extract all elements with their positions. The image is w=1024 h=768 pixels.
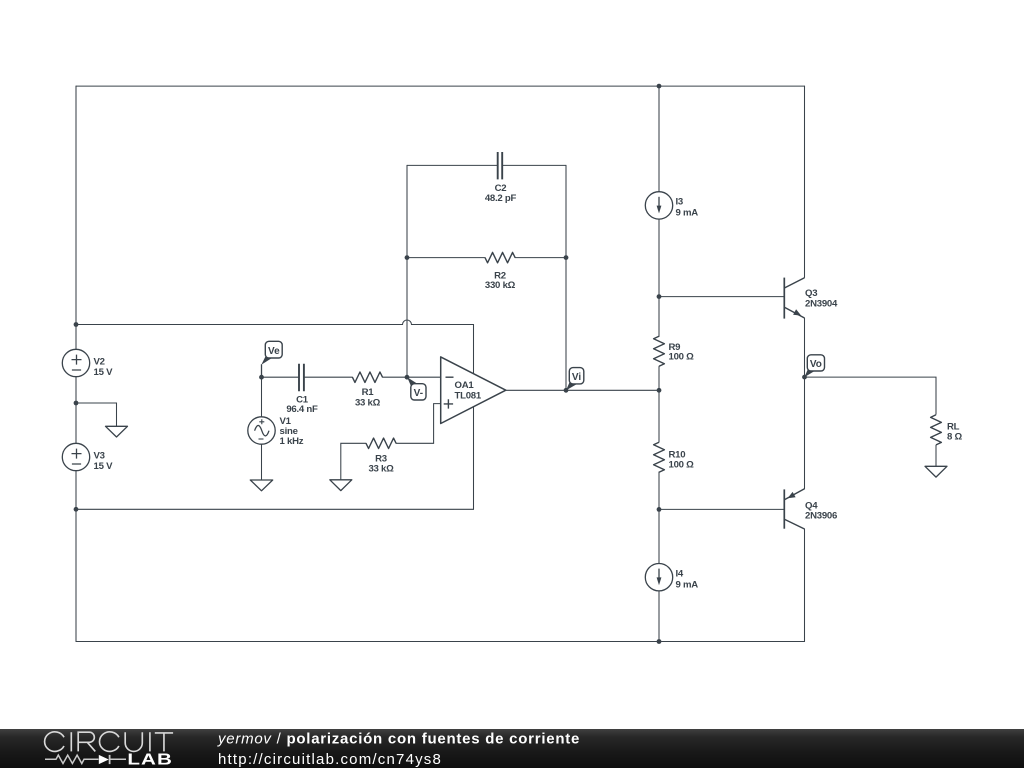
wire Q3 collector vertical (804, 86, 806, 277)
node flag V- (407, 377, 426, 400)
wire Q4 emitter vertical (804, 377, 806, 489)
svg-text:R1: R1 (362, 387, 375, 398)
svg-text:15 V: 15 V (94, 461, 114, 472)
svg-text:Vi: Vi (572, 372, 581, 383)
node dot (407,377.2) (405, 375, 410, 380)
node dot (659,641.5) (657, 639, 662, 644)
node dot (76,509.3) (74, 507, 79, 512)
node dot (659,296.6) (657, 294, 662, 299)
resistor R1 (352, 372, 382, 382)
svg-text:LAB: LAB (127, 750, 173, 768)
node flag Ve (261, 341, 282, 377)
wire left rail mid (75, 377, 77, 443)
transistor Q3 (784, 278, 804, 319)
svg-text:8 Ω: 8 Ω (947, 432, 963, 443)
svg-text:48.2 pF: 48.2 pF (485, 193, 517, 204)
CircuitLab logo: CIRCUIT outline letters (45, 732, 174, 752)
wire op-amp plus input path from R3 (396, 404, 441, 444)
wire RL to ground (935, 445, 937, 466)
wire inner rect bottom (76, 508, 474, 510)
wire R2 row (407, 257, 566, 259)
node dot (566,257.6) (564, 255, 569, 260)
svg-text:V-: V- (414, 388, 423, 399)
wire feedback left vertical (406, 165, 408, 377)
svg-text:I4: I4 (676, 569, 684, 580)
resistor RL (931, 415, 942, 445)
svg-text:15 V: 15 V (94, 367, 114, 378)
ground (below V1) (250, 480, 272, 491)
wire Q4 collector vertical (804, 529, 806, 642)
svg-text:33 kΩ: 33 kΩ (368, 464, 394, 475)
svg-text:330 kΩ: 330 kΩ (485, 280, 516, 291)
resistor R10 (654, 442, 665, 472)
wire left rail upper (75, 86, 77, 349)
wire top rail (76, 85, 805, 87)
svg-text:96.4 nF: 96.4 nF (286, 404, 318, 415)
wire center rail top (658, 86, 660, 192)
wire V1 top (261, 377, 263, 416)
node dot (261.5,377.2) (259, 375, 264, 380)
wire V2-V3 junction to ground (76, 403, 117, 426)
svg-text:http://circuitlab.com/cn74ys8: http://circuitlab.com/cn74ys8 (218, 751, 442, 768)
svg-text:Vo: Vo (810, 359, 822, 370)
resistor R2 (485, 252, 515, 262)
footer bar (0, 729, 1024, 768)
svg-text:100 Ω: 100 Ω (669, 352, 695, 363)
node dot (804.5,377.1) (802, 375, 807, 380)
wire R1 to op-amp minus input (383, 376, 441, 378)
svg-text:Ve: Ve (268, 346, 280, 357)
wire feedback right vertical (565, 165, 567, 390)
resistor R3 (366, 438, 396, 448)
wire inner rect top with hop (76, 320, 474, 325)
svg-text:OA1: OA1 (455, 380, 475, 391)
node dot (659,85.7) (657, 84, 662, 89)
op-amp OA1 (441, 357, 506, 424)
wire I4 to bottom rail (658, 591, 660, 641)
ground (below R3) (330, 480, 352, 491)
svg-text:100 Ω: 100 Ω (669, 460, 695, 471)
current source I3 (645, 192, 672, 219)
wire V1 bottom (261, 445, 263, 481)
wire C1 to R1 (304, 376, 353, 378)
node flag Vi (566, 368, 584, 391)
node dot (76,403) (74, 401, 79, 406)
svg-text:2N3906: 2N3906 (805, 511, 837, 522)
resistor R9 (654, 336, 665, 366)
node flag Vo (805, 355, 825, 377)
voltage source V2 (62, 349, 89, 376)
capacitor C1 (299, 364, 304, 392)
node dot (659,509.4) (657, 507, 662, 512)
svg-text:9 mA: 9 mA (676, 579, 699, 590)
node dot (76,322.7) (74, 322, 79, 327)
svg-text:TL081: TL081 (455, 390, 482, 401)
source V1 sine (248, 417, 275, 444)
wire node Ve to C1 (262, 376, 300, 378)
svg-text:9 mA: 9 mA (676, 207, 699, 218)
node dot (566,390.3) (564, 388, 569, 393)
svg-text:I3: I3 (676, 197, 684, 208)
wire bottom rail (76, 641, 805, 643)
wire op-amp output (506, 389, 659, 391)
wire I3 to Q3 base node (658, 219, 660, 336)
wire Q4 base (659, 508, 784, 510)
svg-text:33 kΩ: 33 kΩ (355, 398, 381, 409)
svg-text:V2: V2 (94, 357, 105, 368)
current source I4 (645, 564, 672, 591)
ground (below RL) (925, 466, 947, 477)
ground (V2-V3 junction) (106, 426, 128, 437)
wire Vo node to RL (805, 377, 937, 414)
capacitor C2 (498, 152, 503, 179)
svg-text:V3: V3 (94, 451, 105, 462)
svg-text:yermov / polarización con fuen: yermov / polarización con fuentes de cor… (217, 731, 580, 748)
node dot (407,257.6) (405, 255, 410, 260)
wire R3 left to ground (341, 443, 366, 480)
wire R9 to Vi node (658, 367, 660, 443)
svg-text:1 kHz: 1 kHz (280, 436, 304, 447)
transistor Q4 (784, 489, 804, 529)
wire feedback top (C2 branch) (407, 164, 566, 166)
CircuitLab logo: resistor-diode line (45, 755, 126, 764)
wire Q3 base (659, 296, 784, 298)
wire Q3 emitter to Vo node (804, 318, 806, 377)
wire left rail lower (75, 471, 77, 642)
wire inner rect right (473, 325, 475, 510)
svg-text:2N3904: 2N3904 (805, 298, 838, 309)
node dot (659,390.3) (657, 388, 662, 393)
voltage source V3 (62, 443, 89, 470)
wire R10 to Q4 base node (658, 472, 660, 563)
